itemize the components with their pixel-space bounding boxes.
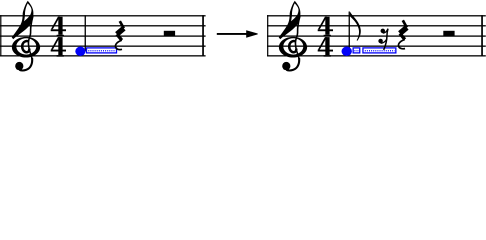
treble clef U1 (staff 1): [12, 1, 40, 71]
blue duration box B (staff 2): [363, 48, 396, 53]
staff 1 line 2: [0, 25, 206, 26]
blue dotted fill line (staff 1): [88, 50, 115, 52]
eighth note flag (staff 2): [350, 12, 361, 41]
staff 2 line 1 (top): [267, 15, 486, 16]
blue duration box (staff 1): [87, 48, 117, 53]
staff 2 line 5 (bottom): [267, 55, 486, 56]
quarter note head, blue selected (staff 1): [75, 47, 85, 57]
sixteenth rest tail (staff 2): [384, 29, 388, 50]
staff 2 line 4: [267, 46, 486, 47]
staff 1 end barline: [202, 15, 204, 56]
sixteenth rest lower curl (staff 2): [381, 39, 387, 43]
quarter rest (staff 1): [115, 21, 123, 49]
staff 1 line 3 (middle): [0, 35, 206, 36]
quarter rest (staff 2): [398, 20, 406, 48]
blue duration box A (staff 2): [353, 48, 360, 53]
staff 1 line 5 (bottom): [0, 55, 206, 56]
staff 1 line 1 (top): [0, 15, 206, 16]
half rest (staff 2): [443, 31, 454, 36]
arrow head: [246, 30, 258, 37]
time signature 4 (bottom, staff 2): [318, 37, 333, 57]
time signature 4 (bottom, staff 1): [51, 37, 66, 57]
time signature 4 (top, staff 2): [318, 17, 333, 37]
staff 2 line 3 (middle): [267, 35, 486, 36]
quarter note stem (staff 1): [85, 15, 86, 51]
staff 2 left barline: [267, 15, 268, 56]
half rest (staff 1): [164, 31, 175, 36]
time signature 4 (top, staff 1): [51, 17, 66, 37]
staff 2 line 2: [267, 25, 486, 26]
eighth note head, blue selected (staff 2): [342, 47, 352, 57]
staff 1 line 4: [0, 46, 206, 47]
eighth note stem (staff 2): [349, 12, 350, 52]
blue dotted fill line A (staff 2): [354, 50, 359, 52]
sixteenth rest upper curl (staff 2): [383, 29, 388, 33]
staff 1 left barline: [0, 15, 1, 56]
blue dotted fill line B (staff 2): [365, 50, 395, 52]
arrow shaft: [217, 33, 248, 35]
treble clef U2 (staff 2): [279, 1, 307, 71]
staff 2 end barline: [481, 15, 483, 56]
